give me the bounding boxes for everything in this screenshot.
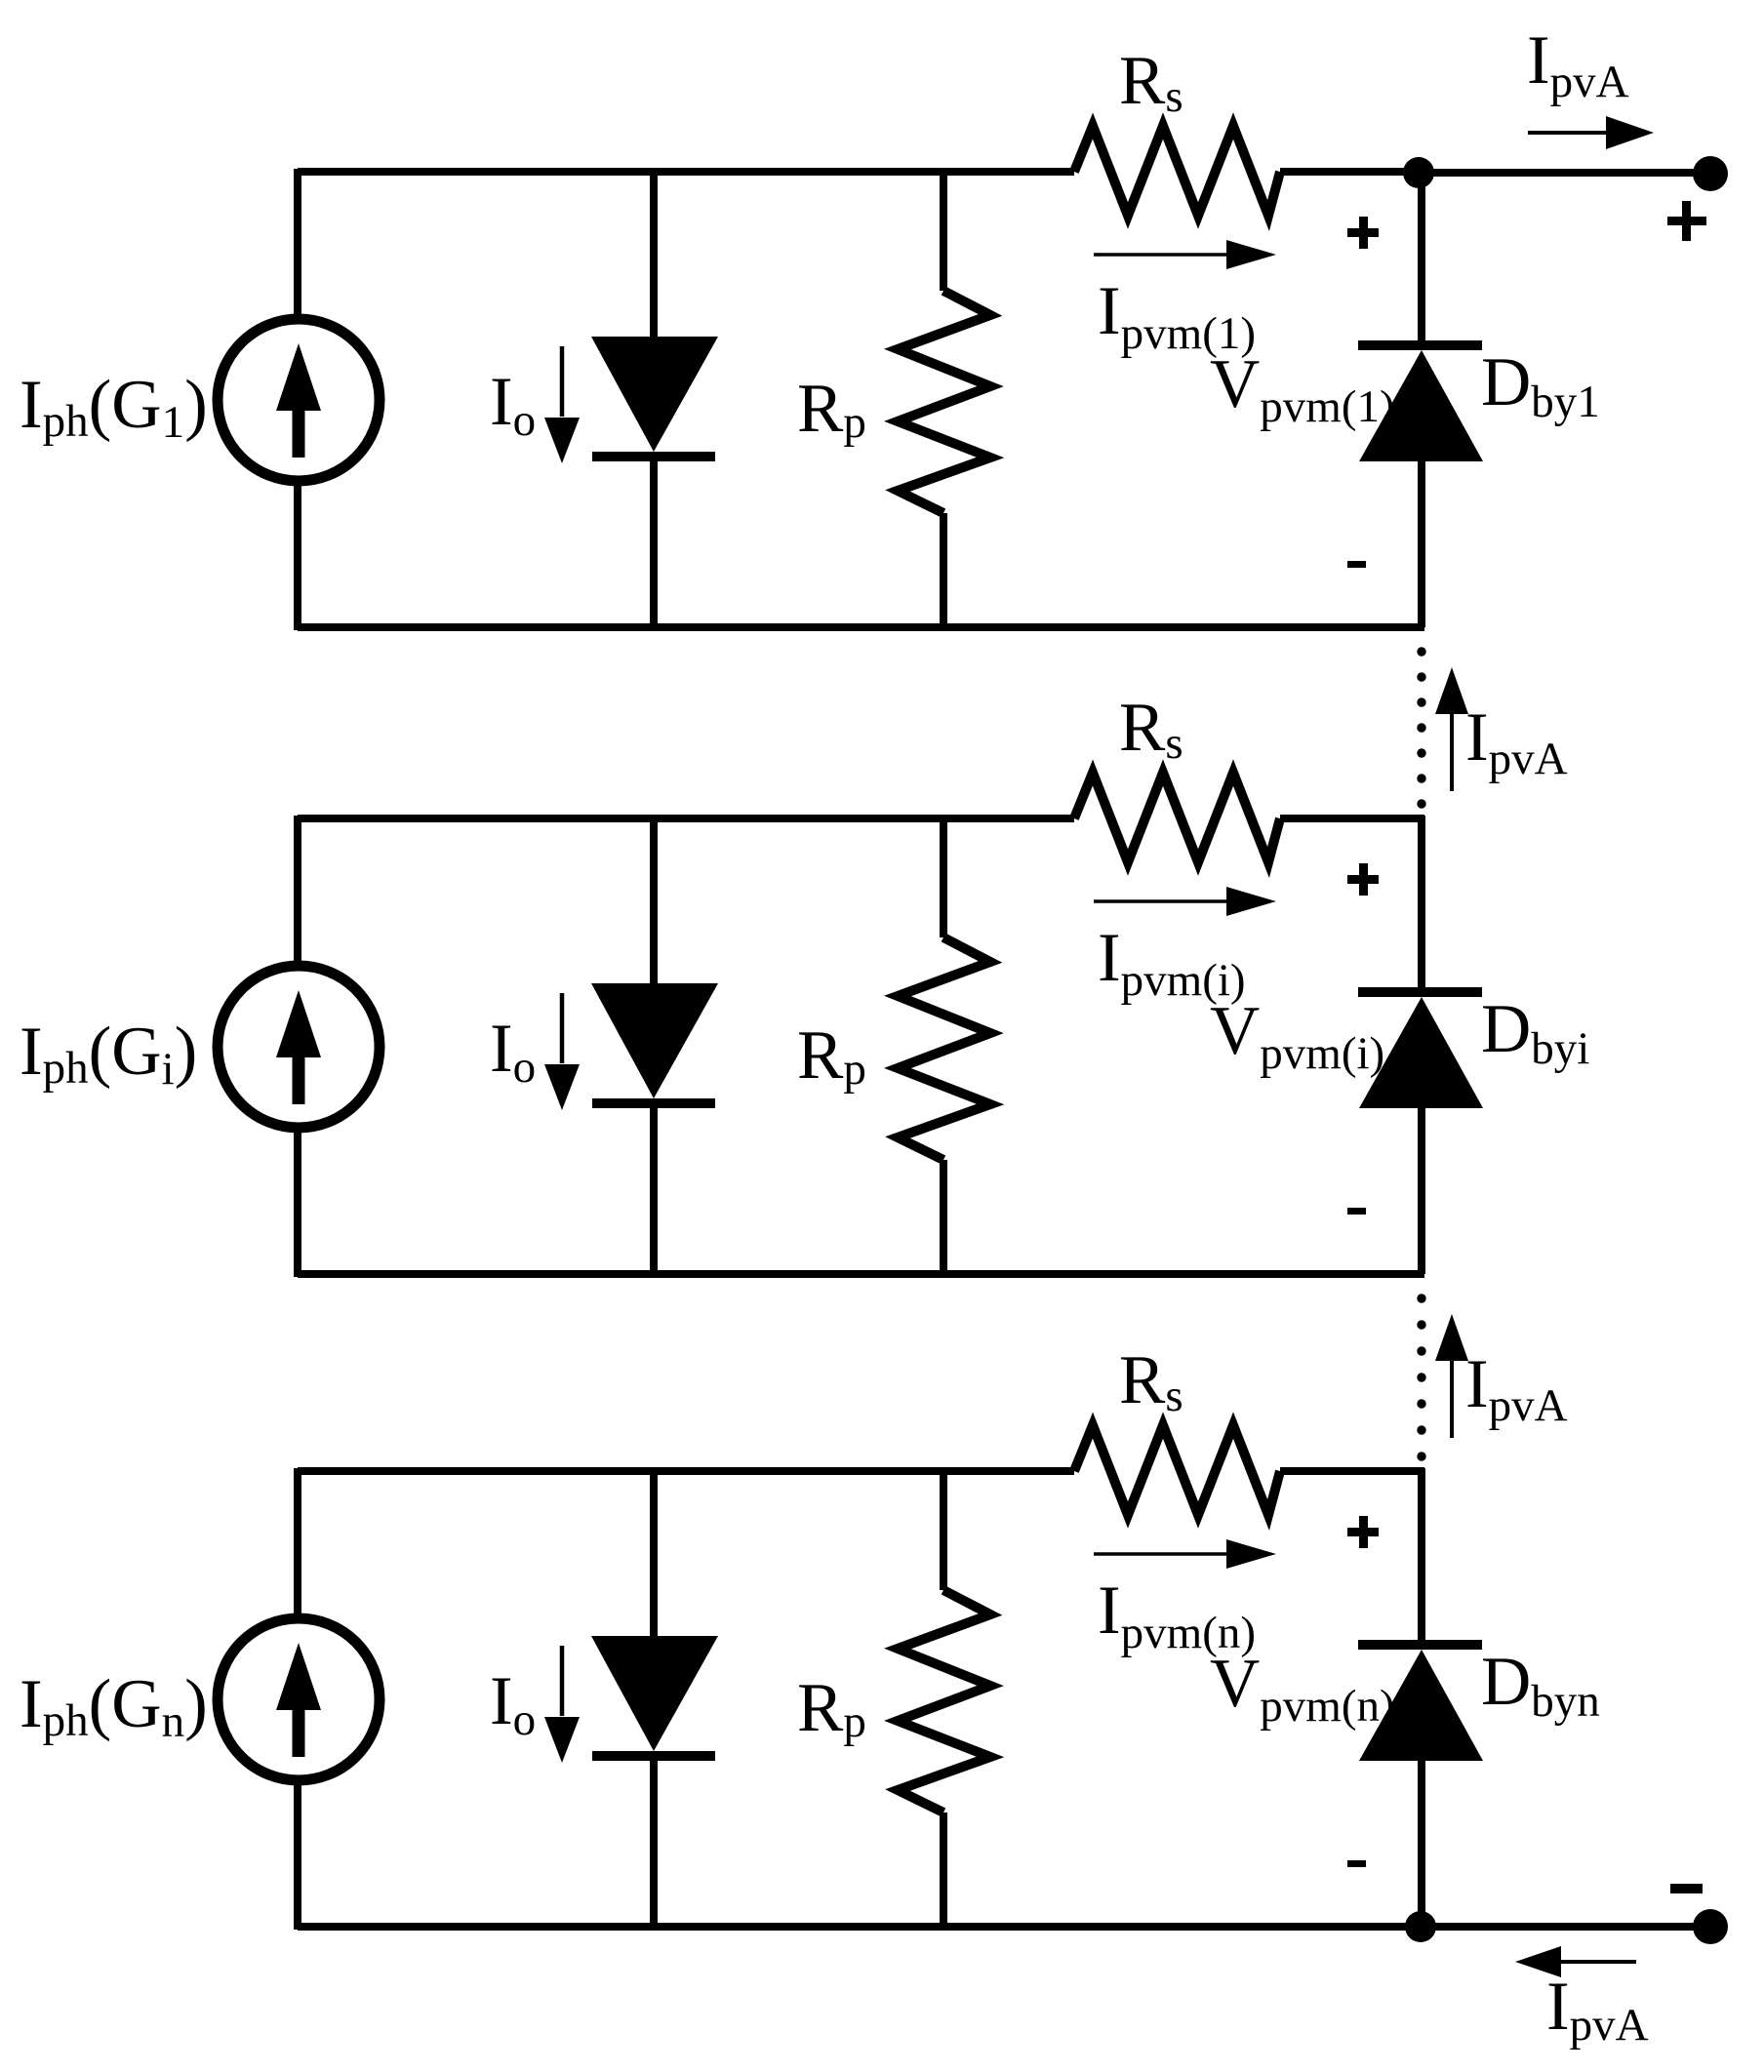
- node: - output terminal dot: [1693, 1909, 1728, 1944]
- PV module 3 left rail wire (lower segment): [294, 1785, 301, 1930]
- resistor Rp branch wire upper, module 2: [940, 816, 947, 937]
- resistor Rs zigzag, module 2: [1074, 773, 1280, 862]
- Io current arrow (down), module 1: [544, 346, 580, 463]
- current arrow IpvA (left) at bottom output: [1515, 1946, 1636, 1977]
- resistor Rp branch wire upper, module 1: [940, 169, 947, 291]
- diode D (Io) branch wire lower, module 3: [650, 1761, 658, 1927]
- bypass diode branch wire upper, module 3: [1418, 1468, 1425, 1642]
- resistor Rp branch wire lower, module 3: [940, 1813, 947, 1927]
- bypass diode branch wire lower, module 3: [1418, 1761, 1425, 1927]
- resistor Rp branch wire lower, module 1: [940, 513, 947, 627]
- current source Iph(Gi) module 2: [218, 966, 380, 1128]
- bypass diode branch wire lower, module 1: [1418, 461, 1425, 627]
- bypass diode branch wire upper, module 2: [1418, 816, 1425, 989]
- current arrow IpvA (right) at top output: [1528, 116, 1654, 149]
- diode D (Io) branch wire upper, module 3: [650, 1468, 658, 1639]
- current source Iph(Gn) module 3: [218, 1618, 380, 1780]
- PV module 2 top wire right segment (Rs to bypass node): [1280, 815, 1424, 822]
- Io current arrow (down), module 2: [544, 993, 580, 1110]
- diode D (Io) branch wire lower, module 1: [650, 461, 658, 627]
- PV module 3 left rail wire (upper segment): [294, 1468, 301, 1614]
- PV module 3 bottom wire: [298, 1923, 1424, 1931]
- node: junction dot at bypass/top-output: [1403, 157, 1434, 188]
- bypass diode Dbyn module 3: cathode bar + triangle (pointing up): [1358, 1640, 1483, 1761]
- node: junction dot at bypass/bottom-output: [1405, 1911, 1436, 1942]
- resistor Rp zigzag, module 2: [898, 937, 990, 1160]
- bypass diode Dbyi module 2: cathode bar + triangle (pointing up): [1358, 987, 1483, 1108]
- bypass diode branch wire upper, module 1: [1418, 169, 1425, 342]
- resistor Rp zigzag, module 1: [898, 291, 990, 513]
- array bottom output wire (node to - terminal): [1422, 1923, 1710, 1931]
- current arrow IpvA (up) between module 2 and 3: [1435, 1314, 1468, 1438]
- current arrow Ipvm(i) module 2: [1094, 887, 1276, 916]
- PV module 1 bottom wire: [298, 623, 1424, 631]
- resistor Rp zigzag, module 3: [898, 1590, 990, 1813]
- resistor Rs zigzag, module 1: [1074, 126, 1280, 216]
- bypass diode branch wire lower, module 2: [1418, 1108, 1425, 1274]
- dotted series connection wire between module 2 and module 3: [1417, 1294, 1425, 1460]
- diode D (Io) module 3: triangle + cathode bar: [591, 1636, 718, 1761]
- plus sign (array + terminal): [1667, 201, 1706, 241]
- PV module 2 left rail wire (lower segment): [294, 1133, 301, 1277]
- PV module 1 left rail wire (lower segment): [294, 486, 301, 630]
- resistor Rp branch wire upper, module 3: [940, 1468, 947, 1590]
- minus sign (module 3 output -): [1347, 1860, 1366, 1867]
- current arrow Ipvm(n) module 3: [1094, 1539, 1276, 1569]
- plus sign (module 1 output +): [1347, 217, 1379, 249]
- diode D (Io) module 1: triangle + cathode bar: [591, 337, 718, 461]
- current arrow IpvA (up) between module 1 and 2: [1435, 667, 1468, 791]
- PV module 1 top wire (node between Iph, D, Rp, Rs): [298, 168, 1074, 176]
- dotted series connection wire between module 1 and module 2: [1417, 647, 1425, 808]
- PV module 2 bottom wire: [298, 1270, 1424, 1278]
- Io current arrow (down), module 3: [544, 1646, 580, 1763]
- diode D (Io) branch wire upper, module 2: [650, 816, 658, 986]
- PV module 3 top wire right segment (Rs to bypass node): [1280, 1467, 1424, 1475]
- resistor Rp branch wire lower, module 2: [940, 1160, 947, 1274]
- current source Iph(G1) module 1: [218, 319, 380, 481]
- PV module 2 top wire (node between Iph, D, Rp, Rs): [298, 815, 1074, 822]
- current arrow Ipvm(1) module 1: [1094, 240, 1276, 269]
- resistor Rs zigzag, module 3: [1074, 1425, 1280, 1515]
- node: + output terminal dot: [1693, 156, 1728, 191]
- minus sign (module 1 output -): [1347, 561, 1366, 568]
- PV module 1 left rail wire (upper segment): [294, 169, 301, 314]
- minus sign (module 2 output -): [1347, 1208, 1366, 1215]
- bypass diode Dby1 module 1: cathode bar + triangle (pointing up): [1358, 340, 1483, 461]
- plus sign (module 2 output +): [1347, 863, 1379, 896]
- PV module 1 top wire right segment (Rs to bypass node): [1280, 168, 1424, 176]
- diode D (Io) module 2: triangle + cathode bar: [591, 983, 718, 1108]
- minus sign (array - terminal): [1670, 1884, 1703, 1893]
- array top output wire (node to + terminal): [1422, 169, 1710, 177]
- PV module 3 top wire (node between Iph, D, Rp, Rs): [298, 1467, 1074, 1475]
- plus sign (module 3 output +): [1347, 1516, 1379, 1548]
- PV module 2 left rail wire (upper segment): [294, 816, 301, 961]
- diode D (Io) branch wire lower, module 2: [650, 1108, 658, 1274]
- diode D (Io) branch wire upper, module 1: [650, 169, 658, 339]
